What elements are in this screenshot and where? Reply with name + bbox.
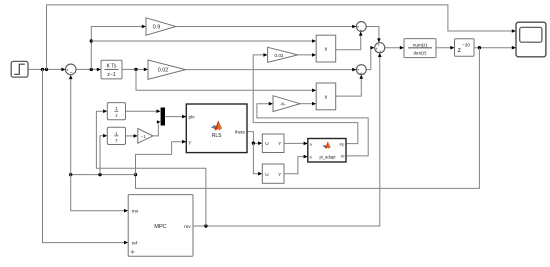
- wire gain 0.02 to sum B: [186, 69, 355, 71]
- wire sum T to sum M: [366, 27, 379, 41]
- svg-text:+: +: [379, 49, 382, 54]
- wire mux to RLS phi: [165, 116, 184, 118]
- wire Kp to gain 0.02 small: [253, 55, 358, 144]
- wire reference to scope input 1: [47, 5, 514, 70]
- svg-text:pi_adapt: pi_adapt: [319, 155, 336, 160]
- svg-text:z: z: [115, 138, 117, 143]
- svg-text:z: z: [458, 47, 461, 54]
- scope: [516, 22, 546, 57]
- unit delay 2: [107, 127, 125, 144]
- wire feedback to RLS y: [136, 142, 185, 175]
- selector U Y 1: [262, 134, 284, 153]
- node feedback junction E: [69, 173, 72, 176]
- gain -K-: [273, 96, 300, 112]
- node plant output junction: [478, 46, 481, 49]
- sum B: [356, 65, 366, 76]
- svg-text:z−1: z−1: [107, 72, 116, 78]
- node error junction: [90, 68, 93, 71]
- node error branch junction: [90, 39, 93, 42]
- svg-text:+: +: [66, 68, 69, 73]
- wire integrator to gain 0.02: [122, 68, 146, 70]
- svg-text:+: +: [375, 47, 378, 52]
- wire unit delay 2 to gain -1: [126, 135, 136, 137]
- MPC controller block: [128, 195, 193, 257]
- svg-text:+: +: [360, 71, 363, 76]
- svg-text:mo: mo: [132, 210, 139, 215]
- wire error up to gain 0.9: [91, 27, 143, 70]
- wire product 2 to sum B: [336, 77, 362, 96]
- plant transfer function num(z)/den(z): [404, 39, 436, 58]
- sum S1: [65, 64, 76, 76]
- wire feedback to unit delay 2: [100, 136, 105, 175]
- wire error to product 1 input 1: [91, 40, 314, 42]
- sum M: [375, 42, 385, 54]
- discrete integrator K Ts/(z-1): [101, 60, 122, 79]
- node feedback junction D: [98, 173, 101, 176]
- wire reference down to MPC ref: [43, 69, 126, 242]
- wire gain -1 to mux: [153, 122, 159, 136]
- svg-text:K Ts: K Ts: [107, 64, 117, 70]
- selector U Y 2: [262, 164, 284, 183]
- svg-text:−1: −1: [141, 134, 146, 139]
- svg-text:Kp: Kp: [339, 141, 345, 146]
- svg-text:num(z): num(z): [413, 42, 428, 47]
- wire sum to integrator: [76, 68, 99, 70]
- svg-text:0.02: 0.02: [158, 68, 169, 74]
- wire feedback left bus: [71, 174, 136, 176]
- svg-text:x: x: [325, 47, 328, 53]
- unit delay 1: [107, 103, 125, 120]
- wire sum B to sum M: [366, 48, 372, 70]
- svg-text:-K-: -K-: [280, 102, 287, 107]
- mux: [161, 108, 165, 126]
- gain 0.02: [148, 60, 186, 79]
- wire selector 1 to pi_adapt a: [284, 142, 306, 144]
- gain 0.9: [146, 18, 176, 35]
- wire feedback to sum minus: [70, 77, 72, 174]
- MATLAB function pi_adapt: [308, 139, 346, 163]
- wire gain 0.9 to sum T: [176, 26, 354, 28]
- svg-text:0.9: 0.9: [153, 25, 161, 31]
- node step output junction B: [45, 68, 48, 71]
- node feedback junction C: [134, 173, 137, 176]
- node step output junction A: [41, 68, 44, 71]
- wire feedback to MPC mo: [71, 175, 126, 211]
- wire step to sum: [28, 68, 63, 70]
- svg-text:0.02: 0.02: [275, 53, 284, 58]
- svg-text:phi: phi: [189, 114, 195, 119]
- product P2: [316, 83, 336, 110]
- wire unit delay 1 to mux: [126, 110, 159, 112]
- wire mv to unit delay 1: [96, 111, 205, 226]
- svg-text:mv: mv: [184, 225, 191, 230]
- svg-text:−: −: [70, 70, 73, 76]
- node mv junction: [204, 224, 207, 227]
- wire sum M to plant: [385, 47, 402, 49]
- svg-text:den(z): den(z): [413, 51, 426, 56]
- product P1: [316, 35, 336, 62]
- wire theta to selector 2: [253, 143, 260, 174]
- wire gain -K- to product 2: [300, 103, 314, 105]
- svg-text:−20: −20: [462, 43, 470, 48]
- svg-text:MPC: MPC: [154, 224, 166, 230]
- node integrator output junction: [134, 68, 137, 71]
- svg-text:theta: theta: [235, 129, 245, 134]
- svg-text:x: x: [325, 94, 328, 100]
- svg-text:Ki: Ki: [341, 154, 345, 159]
- svg-text:z: z: [115, 113, 117, 118]
- wire MPC mv to sum M: [193, 55, 380, 226]
- node theta junction: [252, 142, 255, 145]
- wire plant to delay: [436, 47, 452, 49]
- wire selector 2 to pi_adapt b: [284, 157, 306, 174]
- step input block: [11, 61, 28, 77]
- svg-text:ref: ref: [132, 241, 138, 247]
- wire integrator output to product 2 input 1: [136, 69, 314, 90]
- MATLAB function RLS: [186, 104, 247, 153]
- svg-text:RLS: RLS: [212, 133, 222, 139]
- wire delay to scope input 2: [474, 47, 514, 49]
- wire RLS theta to selector 1: [247, 132, 260, 144]
- wire Ki to gain -K-: [257, 104, 368, 156]
- gain -1: [138, 129, 153, 144]
- svg-text:+: +: [360, 28, 363, 33]
- wire gain 0.02 small to product 1: [298, 54, 314, 56]
- wire plant output feedback down and left: [136, 48, 480, 189]
- delay z^-20: [455, 39, 475, 57]
- wire product 1 to sum T: [336, 34, 361, 50]
- sum T: [356, 22, 366, 33]
- gain 0.02 small: [268, 47, 298, 62]
